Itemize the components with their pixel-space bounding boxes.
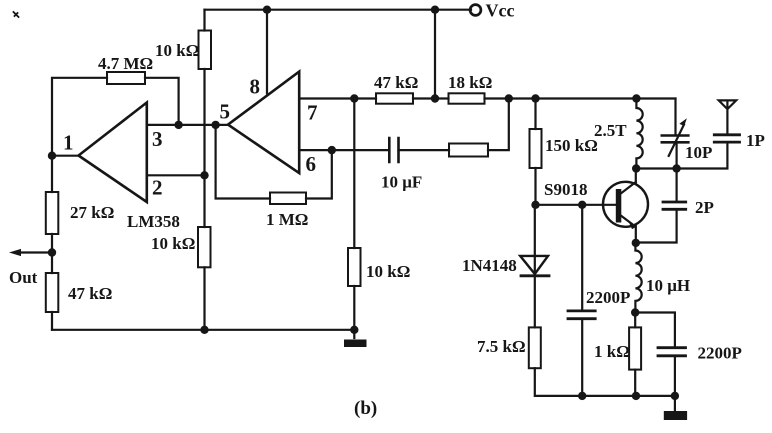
svg-text:7.5 kΩ: 7.5 kΩ <box>477 337 526 356</box>
wire tap to 2200P right <box>635 313 675 347</box>
node main line at Vcc drop <box>431 94 439 102</box>
wire tank mid line <box>636 143 727 168</box>
resistor 10k mid body <box>348 248 361 286</box>
capacitor 2P plates <box>663 202 686 209</box>
node 1M feedback junction <box>211 121 219 129</box>
node on rail above pin 8 <box>263 6 271 14</box>
ground symbol left <box>353 330 355 338</box>
node collector tank junction <box>632 164 640 172</box>
resistor 1k body <box>629 327 641 369</box>
node main line at 10k branch <box>350 94 358 102</box>
resistor unlabeled body <box>449 144 488 157</box>
wire 1M feedback loop <box>216 125 332 199</box>
resistor 18k body <box>449 93 485 103</box>
svg-text:2200P: 2200P <box>586 288 630 307</box>
wire bottom-left ground rail <box>52 329 354 331</box>
svg-text:10P: 10P <box>685 143 712 162</box>
wire pin1 lead <box>52 155 79 157</box>
op-amp U1B triangle <box>228 72 299 174</box>
wire 10P to tank line <box>675 144 677 169</box>
node 10uH bottom tap <box>631 308 639 316</box>
node right rail at ground <box>671 392 679 400</box>
svg-text:1N4148: 1N4148 <box>462 256 517 275</box>
svg-text:6: 6 <box>306 152 317 176</box>
svg-text:150 kΩ: 150 kΩ <box>545 136 598 155</box>
wire pin3 to pin5 <box>147 124 228 126</box>
node main line at 150k <box>531 94 539 102</box>
svg-text:7: 7 <box>307 101 318 125</box>
resistor 47k body <box>376 93 413 103</box>
wire pin8 vertical <box>266 10 268 94</box>
svg-text:S9018: S9018 <box>544 180 587 199</box>
svg-text:1: 1 <box>63 131 74 155</box>
node emitter junction <box>632 239 640 247</box>
inductor 2.5T coil <box>636 99 642 169</box>
wire Vcc drop to main line <box>434 10 436 99</box>
wire mid vertical 10k branch <box>353 99 355 330</box>
terminal Vcc circle <box>470 5 481 16</box>
svg-text:5: 5 <box>220 100 231 124</box>
wire base line <box>536 204 617 206</box>
node tank line at 2P <box>672 164 680 172</box>
node base line at 2200P <box>578 201 586 209</box>
capacitor 2200P left plates <box>568 311 595 319</box>
wire left vertical from rail to bottom rail <box>203 10 205 330</box>
node coil top on main line <box>632 94 640 102</box>
node right rail at 2200P <box>578 392 586 400</box>
capacitor 10P variable plates <box>662 136 689 143</box>
op-amp U1A triangle <box>79 103 147 203</box>
wire emitter vertical <box>635 226 637 243</box>
wire 2200P right to rail <box>674 357 676 396</box>
node on rail above 18k <box>431 6 439 14</box>
svg-text:10 μF: 10 μF <box>381 173 422 192</box>
ground symbol right <box>674 396 676 410</box>
node base junction <box>531 201 539 209</box>
svg-text:2200P: 2200P <box>698 344 742 363</box>
resistor 27k body <box>46 192 59 234</box>
svg-text:Vcc: Vcc <box>486 1 515 21</box>
wire diode to 7.5k <box>534 276 536 328</box>
svg-text:47 kΩ: 47 kΩ <box>374 73 418 92</box>
wire 150k branch <box>534 99 537 275</box>
node right rail at 1k <box>632 392 640 400</box>
svg-text:(b): (b) <box>354 398 377 419</box>
antenna <box>719 100 737 134</box>
diode 1N4148 <box>520 256 548 274</box>
svg-text:2.5T: 2.5T <box>594 121 627 140</box>
capacitor 10uF plates <box>389 138 398 162</box>
svg-text:3: 3 <box>152 127 163 151</box>
svg-text:1 kΩ: 1 kΩ <box>594 342 630 361</box>
capacitor 1P plates <box>714 135 739 142</box>
node pin6 junction <box>328 146 336 154</box>
svg-text:LM358: LM358 <box>127 212 180 231</box>
node main line feedback return <box>505 94 513 102</box>
wire 2200P left branch <box>581 205 583 396</box>
node divider tap <box>200 171 208 179</box>
resistor 10k mid-left body <box>198 227 211 267</box>
node Out tap <box>48 248 56 256</box>
svg-text:10 kΩ: 10 kΩ <box>151 234 195 253</box>
resistor 1M body <box>270 193 306 205</box>
wire 7.5k to right ground rail <box>535 368 675 396</box>
scan speck top-left <box>14 12 19 17</box>
resistor 4.7M body <box>107 72 145 84</box>
resistor 10k top-left body <box>199 31 212 70</box>
svg-text:10 kΩ: 10 kΩ <box>155 41 199 60</box>
wire top Vcc rail <box>205 9 472 11</box>
svg-text:2P: 2P <box>695 198 714 217</box>
node feedback to pin3 line <box>174 121 182 129</box>
svg-text:10 μH: 10 μH <box>646 276 690 295</box>
wire 4.7M feedback loop <box>52 78 179 156</box>
resistor 150k body <box>530 129 542 168</box>
wire pin6 row <box>299 99 509 151</box>
svg-text:10 kΩ: 10 kΩ <box>366 262 410 281</box>
wire 1k branch <box>634 313 636 396</box>
resistor 7.5k body <box>529 327 541 368</box>
wire collector vertical <box>635 169 637 184</box>
transistor Q1 S9018 <box>603 182 648 227</box>
svg-text:18 kΩ: 18 kΩ <box>448 73 492 92</box>
wire 10P branch top <box>674 99 676 135</box>
node bottom rail at divider <box>200 326 208 334</box>
svg-text:27 kΩ: 27 kΩ <box>70 203 114 222</box>
wire Out arrow <box>18 251 52 253</box>
svg-text:1P: 1P <box>746 131 765 150</box>
wire 2P branch <box>636 169 676 243</box>
node pin1 <box>48 152 56 160</box>
svg-text:1 MΩ: 1 MΩ <box>266 210 308 229</box>
svg-text:Out: Out <box>9 268 38 287</box>
svg-text:47 kΩ: 47 kΩ <box>68 284 112 303</box>
svg-text:4.7 MΩ: 4.7 MΩ <box>98 54 153 73</box>
wire pin2 to divider <box>147 174 205 176</box>
svg-text:2: 2 <box>152 176 163 200</box>
node bottom rail at 10k <box>350 326 358 334</box>
capacitor 2200P right plates <box>658 348 686 356</box>
wire left column down <box>51 156 53 330</box>
inductor 10uH coil <box>635 243 641 313</box>
resistor 47k lower-left body <box>46 273 59 312</box>
wire main output line y=98.5 <box>299 97 675 99</box>
svg-text:8: 8 <box>250 75 261 99</box>
